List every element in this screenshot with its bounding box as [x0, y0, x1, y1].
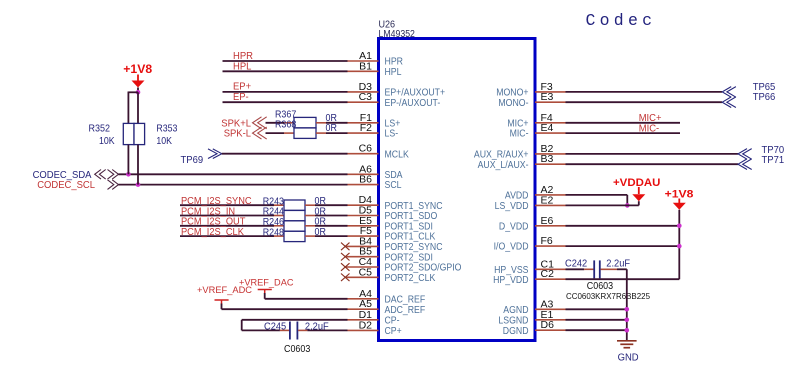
pin number A1	[359, 50, 372, 62]
label 0R (R246 value)	[315, 217, 326, 228]
label R353	[156, 124, 177, 135]
svg-text:AVDD: AVDD	[505, 191, 529, 202]
svg-text:HPL: HPL	[385, 67, 402, 78]
pin name LSGND	[498, 315, 528, 326]
resistor R244 body	[284, 210, 305, 220]
label 2.2uF (C245 value)	[305, 321, 329, 332]
resistor R368 body	[294, 128, 316, 138]
svg-text:B1: B1	[359, 60, 372, 72]
svg-text:MONO-: MONO-	[498, 98, 528, 109]
svg-text:F6: F6	[541, 235, 553, 247]
label TP70	[762, 145, 785, 156]
label HPR	[233, 51, 253, 62]
wire AVDD from pin A2	[566, 195, 628, 206]
svg-text:C242: C242	[565, 258, 588, 269]
label R243	[263, 196, 285, 207]
IC pin C4 stub	[345, 266, 379, 268]
pin name HPL	[385, 67, 402, 78]
label TP66	[753, 92, 776, 103]
wire PCM_I2S_IN to R244	[180, 215, 274, 217]
wire R353 to CODEC_SCL	[137, 145, 139, 185]
svg-text:E6: E6	[541, 215, 554, 227]
pin number B6	[359, 174, 372, 186]
svg-text:PCM_I2S_CLK: PCM_I2S_CLK	[181, 227, 244, 238]
pin name HPR	[385, 57, 404, 68]
resistor R246 left lead	[274, 225, 284, 227]
pin number E3	[541, 91, 554, 103]
wire MIC+ from pin F4	[566, 122, 681, 124]
junction AVDD / LS_VDD	[625, 203, 630, 208]
wire R367 to pin F1	[326, 122, 348, 124]
resistor R243 left lead	[274, 204, 284, 206]
IC pin B2 stub	[535, 153, 566, 155]
label 0R (R367 value)	[326, 113, 337, 124]
pin name I/O_VDD	[494, 242, 529, 253]
wire CODEC_SCL to pin B6	[119, 184, 348, 186]
pin number F3	[541, 81, 553, 93]
wire CP- to C245	[242, 329, 280, 331]
resistor R367 left lead	[284, 122, 294, 124]
resistor R368 left lead	[284, 132, 294, 134]
testpoint TP69 chevrons	[208, 149, 222, 159]
pin number E5	[359, 215, 372, 227]
resistor R352 body	[123, 123, 134, 144]
label 0R (R243 value)	[315, 196, 326, 207]
IC pin B3 stub	[535, 163, 566, 165]
IC pin F3 stub	[535, 91, 566, 93]
svg-text:0R: 0R	[315, 227, 326, 238]
wire +VDDAU drop	[638, 201, 640, 205]
IC pin E4 stub	[535, 132, 566, 134]
wire HPL to pin B1	[223, 70, 348, 72]
svg-text:C2: C2	[541, 268, 555, 280]
svg-text:MIC-: MIC-	[510, 129, 529, 140]
no-connect X on pin B5	[341, 253, 350, 261]
pin name PORT2_SDO/GPIO	[385, 263, 462, 274]
wire CP- corner down	[241, 320, 243, 331]
svg-text:E2: E2	[541, 194, 554, 206]
wire LS_VDD from pin E2	[566, 204, 639, 206]
svg-text:AGND: AGND	[503, 305, 528, 316]
pin number A4	[359, 288, 372, 300]
pin number C3	[359, 91, 373, 103]
IC pin F4 stub	[535, 122, 566, 124]
IC pin E5 stub	[348, 225, 379, 227]
IC pin F2 stub	[348, 132, 379, 134]
power +1V8 (right) symbol	[673, 199, 686, 210]
IC pin B5 stub	[345, 256, 379, 258]
pin number D6	[541, 319, 555, 331]
IC pin A4 stub	[348, 298, 379, 300]
svg-text:B3: B3	[541, 153, 554, 165]
label C242	[565, 258, 588, 269]
IC pin D5 stub	[348, 215, 379, 217]
resistor R367 right lead	[316, 122, 326, 124]
label 0R (R244 value)	[315, 206, 326, 217]
pin name LS_VDD	[495, 201, 529, 212]
pin number A3	[541, 298, 554, 310]
no-connect X on pin C4	[341, 263, 350, 271]
power +VDDAU symbol	[632, 187, 645, 201]
svg-text:GND: GND	[618, 353, 639, 364]
svg-text:+1V8: +1V8	[123, 62, 152, 76]
pin name PORT2_SDI	[385, 252, 433, 263]
pin number F4	[541, 112, 553, 124]
svg-text:AUX_L/AUX-: AUX_L/AUX-	[478, 160, 529, 171]
svg-text:CODEC_SCL: CODEC_SCL	[37, 180, 95, 191]
pin name ADC_REF	[385, 305, 426, 316]
IC pin C2 stub	[535, 278, 566, 280]
power +VREF_ADC label	[197, 285, 252, 296]
pin number B4	[359, 235, 372, 247]
label R352	[89, 124, 111, 135]
label 0R (R248 value)	[315, 227, 326, 238]
wire SPK-L to R368	[266, 132, 285, 134]
resistor R368 right lead	[316, 132, 326, 134]
svg-text:D2: D2	[359, 319, 373, 331]
junction I/O_VDD / +1V8 rail	[677, 244, 682, 249]
label C0603 (C245 footprint)	[284, 344, 311, 355]
label PCM_I2S_IN	[181, 206, 235, 217]
pin number C6	[359, 143, 373, 155]
label R244	[263, 207, 285, 218]
svg-text:2.2uF: 2.2uF	[305, 321, 329, 332]
pin number E4	[541, 122, 554, 134]
wire CP- to pin D1	[242, 319, 348, 321]
IC pin B1 stub	[348, 70, 379, 72]
junction LSGND / GND rail	[625, 318, 630, 323]
svg-text:ADC_REF: ADC_REF	[385, 305, 426, 316]
op-amp/IC U26 LM49352 body	[379, 39, 536, 341]
ground symbol	[617, 341, 637, 348]
pin number D1	[359, 309, 373, 321]
IC pin D6 stub	[535, 329, 566, 331]
label 0R (R368 value)	[326, 123, 337, 134]
label CC0603KRX7R6BB225	[566, 291, 650, 301]
pin name MCLK	[385, 149, 409, 160]
pin name HP_VSS	[494, 265, 528, 276]
wire +VREF_DAC to pin A4	[265, 298, 348, 300]
pin name MONO+	[496, 88, 528, 99]
resistor R248 body	[284, 231, 305, 241]
wire +VREF_ADC to pin A5	[222, 308, 348, 310]
IC pin E3 stub	[535, 101, 566, 103]
pin name PORT1_SYNC	[385, 201, 443, 212]
power +1V8 (left) symbol	[132, 75, 145, 88]
junction CODEC_SDA / R352	[126, 172, 131, 177]
pin name CP-	[385, 315, 400, 326]
svg-text:F2: F2	[360, 122, 372, 134]
power +1V8 (left) label	[123, 62, 152, 76]
svg-text:R248: R248	[263, 227, 285, 238]
IC pin A1 stub	[348, 60, 379, 62]
svg-text:EP-/AUXOUT-: EP-/AUXOUT-	[385, 98, 441, 109]
pin name LS-	[385, 129, 399, 140]
capacitor C242 right lead	[601, 268, 618, 270]
pin number E1	[541, 309, 554, 321]
pin name PORT2_SYNC	[385, 242, 443, 253]
pin name PORT2_CLK	[385, 273, 436, 284]
svg-text:LS_VDD: LS_VDD	[495, 201, 529, 212]
svg-text:CP-: CP-	[385, 315, 400, 326]
label EP+	[233, 81, 251, 92]
wire DGND from pin D6	[566, 329, 627, 331]
resistor R353 body	[134, 123, 145, 144]
pin name EP+/AUXOUT+	[385, 88, 446, 99]
svg-text:C3: C3	[359, 91, 373, 103]
IC pin C1 stub	[535, 268, 566, 270]
capacitor C245 left lead	[280, 329, 289, 331]
resistor R367 body	[294, 117, 316, 128]
wire LSGND from pin E1	[566, 319, 627, 321]
power +VREF_DAC label	[239, 278, 294, 289]
junction CODEC_SCL / R353	[136, 182, 141, 187]
wire AUX_R/AUX+ to TP70	[566, 153, 739, 155]
label HPL	[233, 61, 252, 72]
svg-text:C6: C6	[359, 143, 373, 155]
wire TP69 to pin C6 (MCLK)	[222, 153, 348, 155]
pin number F5	[360, 225, 372, 237]
svg-text:MCLK: MCLK	[385, 149, 409, 160]
no-connect X on pin B4	[341, 243, 350, 251]
wire SPK+L to R367	[266, 122, 285, 124]
pin number F2	[360, 122, 372, 134]
svg-text:HP_VDD: HP_VDD	[493, 275, 528, 286]
wire R243 to pin	[315, 204, 348, 206]
svg-text:TP69: TP69	[181, 155, 204, 166]
pin name MIC+	[507, 118, 528, 129]
wire MIC- from pin E4	[566, 132, 681, 134]
label 10K (R352 value)	[99, 136, 115, 147]
svg-text:PORT2_CLK: PORT2_CLK	[385, 273, 436, 284]
wire PCM_I2S_CLK to R248	[180, 235, 274, 237]
pin name EP-/AUXOUT-	[385, 98, 441, 109]
testpoint TP70 chevrons	[738, 149, 752, 160]
svg-text:E3: E3	[541, 91, 554, 103]
pin number C2	[541, 268, 555, 280]
svg-text:C0603: C0603	[284, 344, 311, 355]
junction D_VDD / +1V8 rail	[677, 224, 682, 229]
wire +VREF_DAC stem	[264, 293, 266, 299]
wire PCM_I2S_SYNC to R243	[180, 204, 274, 206]
capacitor C242 left lead	[584, 268, 593, 270]
label MIC+	[639, 113, 662, 124]
svg-text:TP71: TP71	[762, 155, 785, 166]
label MIC-	[639, 123, 660, 134]
pin number F1	[360, 112, 372, 124]
testpoint TP66 chevrons	[722, 97, 736, 108]
label PCM_I2S_SYNC	[181, 196, 252, 207]
IC pin D2 stub	[348, 329, 379, 331]
wire to R353	[137, 92, 139, 123]
pin number F6	[541, 235, 553, 247]
pin name CP+	[385, 326, 402, 337]
label 2.2uF (C242 value)	[606, 258, 630, 269]
resistor R244 right lead	[305, 215, 315, 217]
svg-text:+VDDAU: +VDDAU	[613, 177, 660, 189]
pin name SDA	[385, 170, 403, 181]
wire HP_VSS from pin C1	[566, 268, 585, 270]
svg-text:B6: B6	[359, 174, 372, 186]
wire MONO+ to TP65	[566, 91, 723, 93]
junction DGND / GND rail	[625, 328, 630, 333]
label R367	[275, 109, 296, 120]
label TP69	[181, 155, 204, 166]
wire AGND from pin A3	[566, 308, 627, 310]
svg-text:D6: D6	[541, 319, 555, 331]
wire I/O_VDD from pin F6	[566, 245, 680, 247]
wire HP_VDD from pin C2 to +1V8 rail	[566, 278, 680, 280]
label C245	[264, 321, 287, 332]
svg-text:DAC_REF: DAC_REF	[385, 294, 426, 305]
pin number A2	[541, 184, 554, 196]
wire CODEC_SDA to pin A6	[119, 173, 348, 175]
pin number D2	[359, 319, 373, 331]
label 10K (R353 value)	[156, 136, 172, 147]
svg-text:R368: R368	[275, 119, 297, 130]
label SPK+L	[221, 118, 251, 129]
svg-text:MIC-: MIC-	[639, 123, 660, 134]
wire jog to R352	[128, 92, 138, 124]
svg-text:2.2uF: 2.2uF	[606, 258, 630, 269]
svg-text:D_VDD: D_VDD	[499, 221, 529, 232]
capacitor C242 plates	[594, 260, 600, 278]
label SPK-L	[224, 129, 252, 140]
off-page connector CODEC_SDA chevrons	[95, 170, 119, 180]
wire R248 to pin	[315, 235, 348, 237]
IC pin A2 stub	[535, 194, 566, 196]
pin number C1	[541, 258, 555, 270]
off-page connector SPK+L chevrons	[253, 117, 267, 129]
IC pin E1 stub	[535, 319, 566, 321]
power +VREF_DAC bar symbol	[258, 290, 272, 295]
pin number B1	[359, 60, 372, 72]
wire MONO- to TP66	[566, 101, 723, 103]
wire +1V8 rail down	[678, 210, 680, 280]
svg-text:10K: 10K	[99, 136, 115, 147]
power +VDDAU label	[613, 177, 660, 189]
IC pin B4 stub	[345, 245, 379, 247]
wire EP+ to pin D3	[223, 91, 348, 93]
wire EP- to pin C3	[223, 101, 348, 103]
svg-text:C5: C5	[359, 266, 373, 278]
wire R246 to pin	[315, 225, 348, 227]
pin number E2	[541, 194, 554, 206]
title Codec	[586, 11, 657, 30]
svg-text:EP-: EP-	[233, 92, 249, 103]
pin number C5	[359, 266, 373, 278]
svg-text:LSGND: LSGND	[498, 315, 528, 326]
pin name AUX_L/AUX-	[478, 160, 529, 171]
resistor R244 left lead	[274, 215, 284, 217]
resistor R248 right lead	[305, 235, 315, 237]
resistor R248 left lead	[274, 235, 284, 237]
no-connect X on pin C5	[341, 274, 350, 282]
resistor R246 right lead	[305, 225, 315, 227]
pin number B3	[541, 153, 554, 165]
label PCM_I2S_OUT	[181, 217, 245, 228]
wire R368 to pin F2	[326, 132, 348, 134]
label C0603 (C242 footprint)	[587, 281, 614, 292]
power +1V8 (right) label	[665, 189, 694, 201]
IC pin D4 stub	[348, 204, 379, 206]
pin number B5	[359, 246, 372, 258]
pin name MIC-	[510, 129, 529, 140]
wire R244 to pin	[315, 215, 348, 217]
pin number D3	[359, 81, 373, 93]
junction +1V8 / R352 / R353	[136, 90, 141, 95]
IC pin F5 stub	[348, 235, 379, 237]
resistor R246 body	[284, 221, 305, 231]
svg-text:EP+: EP+	[233, 81, 251, 92]
label TP71	[762, 155, 785, 166]
pin name PORT1_SDI	[385, 221, 433, 232]
svg-text:HPL: HPL	[233, 61, 252, 72]
IC pin E2 stub	[535, 204, 566, 206]
IC pin C6 stub	[348, 153, 379, 155]
svg-text:LS-: LS-	[385, 129, 399, 140]
pin name LS+	[385, 118, 401, 129]
testpoint TP71 chevrons	[738, 159, 752, 170]
pin name HP_VDD	[493, 275, 528, 286]
svg-text:LM49352: LM49352	[379, 29, 416, 40]
off-page connector SPK-L chevrons	[253, 127, 267, 139]
label R368	[275, 119, 297, 130]
wire C245 to pin D2	[307, 329, 347, 331]
pin number C4	[359, 256, 373, 268]
pin number E6	[541, 215, 554, 227]
power +VREF_ADC bar symbol	[215, 300, 229, 305]
svg-text:I/O_VDD: I/O_VDD	[494, 242, 529, 253]
label CODEC_SCL	[37, 180, 95, 191]
label U26 refdes	[379, 20, 396, 31]
off-page connector CODEC_SCL chevrons	[108, 180, 119, 190]
capacitor C245 plates	[290, 322, 298, 340]
svg-text:E4: E4	[541, 122, 554, 134]
svg-text:CC0603KRX7R6BB225: CC0603KRX7R6BB225	[566, 291, 650, 301]
pin name DAC_REF	[385, 294, 426, 305]
IC pin A5 stub	[348, 308, 379, 310]
svg-text:10K: 10K	[156, 136, 172, 147]
label R248	[263, 227, 285, 238]
label TP65	[753, 82, 776, 93]
pin name MONO-	[498, 98, 528, 109]
wire +VREF_ADC stem	[221, 304, 223, 310]
pin number D4	[359, 194, 373, 206]
IC pin F6 stub	[535, 245, 566, 247]
wire C242 to GND rail	[617, 268, 627, 270]
IC pin C3 stub	[348, 101, 379, 103]
svg-text:Codec: Codec	[586, 11, 657, 30]
IC pin B6 stub	[348, 184, 379, 186]
label R246	[263, 217, 285, 228]
svg-text:SPK-L: SPK-L	[224, 129, 252, 140]
label CODEC_SDA	[33, 170, 92, 181]
pin number D5	[359, 205, 373, 217]
svg-text:0R: 0R	[326, 123, 337, 134]
wire D_VDD from pin E6	[566, 225, 680, 227]
testpoint TP65 chevrons	[722, 87, 736, 98]
IC pin A6 stub	[348, 173, 379, 175]
pin name AUX_R/AUX+	[474, 150, 529, 161]
capacitor C245 right lead	[298, 329, 307, 331]
junction AGND / GND rail	[625, 307, 630, 312]
wire PCM_I2S_OUT to R246	[180, 225, 274, 227]
pin name PORT1_SDO	[385, 211, 438, 222]
svg-text:SCL: SCL	[385, 180, 402, 191]
svg-text:+VREF_ADC: +VREF_ADC	[197, 285, 252, 296]
IC pin E6 stub	[535, 225, 566, 227]
